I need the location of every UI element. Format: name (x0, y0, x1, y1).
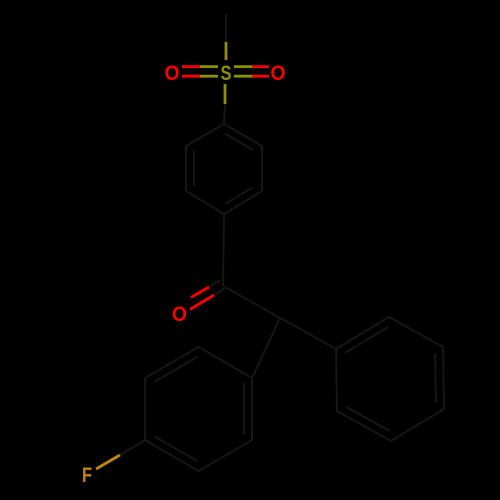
ring 3 inner double bond line, top left (154, 357, 197, 382)
svg-text:O: O (165, 62, 180, 85)
ring 2 inner double bond line, top left (345, 327, 388, 353)
sulfonyl S=O left double bond, olive half (200, 65, 218, 68)
carbonyl C=O double bond, line A red half (191, 287, 209, 298)
sulfonyl S=O right double bond, olive half (234, 65, 252, 68)
ring 1 inner double bond line, bottom right (225, 187, 253, 204)
benzene ring 3 (fluorophenyl, bottom left) (145, 347, 252, 471)
carbonyl C=O double bond, line A dark half (209, 281, 220, 288)
sulfonyl S=O left double bond, red half (182, 65, 200, 68)
carbonyl C=O double bond, line B dark half (214, 289, 225, 296)
bond S to ring C1, carbon half (224, 104, 225, 124)
bond F to ring 3, carbon half (120, 440, 145, 455)
benzene ring 2 (phenyl, right) (336, 317, 444, 441)
bond F to ring 3, fluorine half (96, 455, 120, 469)
svg-text:O: O (172, 303, 187, 326)
ring 1 inner double bond line, top right (225, 134, 253, 150)
ring 3 inner double bond line, bottom left (154, 436, 197, 461)
methyl group CH3 bond (C half, dark) (225, 14, 227, 42)
ring 2 inner double bond line, bottom (346, 407, 390, 431)
svg-text:O: O (271, 62, 286, 85)
sulfonyl S=O right double bond, red half (252, 65, 269, 68)
ring 2 inner double bond line, right (434, 353, 437, 403)
methyl group CH3 bond (S half, olive) (225, 42, 228, 60)
bond ring1 C4 down to carbonyl carbon (223, 214, 224, 286)
bond S to ring C1, olive half (224, 84, 227, 104)
bond carbonyl C to CH and on to phenyl ring ipso (straight diagonal) (223, 286, 336, 349)
ring 1 inner double bond line, left side (193, 151, 195, 186)
svg-text:S: S (221, 62, 232, 85)
svg-text:F: F (82, 464, 92, 487)
benzene ring 1 (methylsulfonylphenyl) (186, 124, 262, 214)
carbonyl C=O double bond, line B red half (190, 295, 214, 310)
bond CH to fluorophenyl ipso (252, 318, 280, 378)
ring 3 inner double bond line, right side (243, 383, 245, 435)
